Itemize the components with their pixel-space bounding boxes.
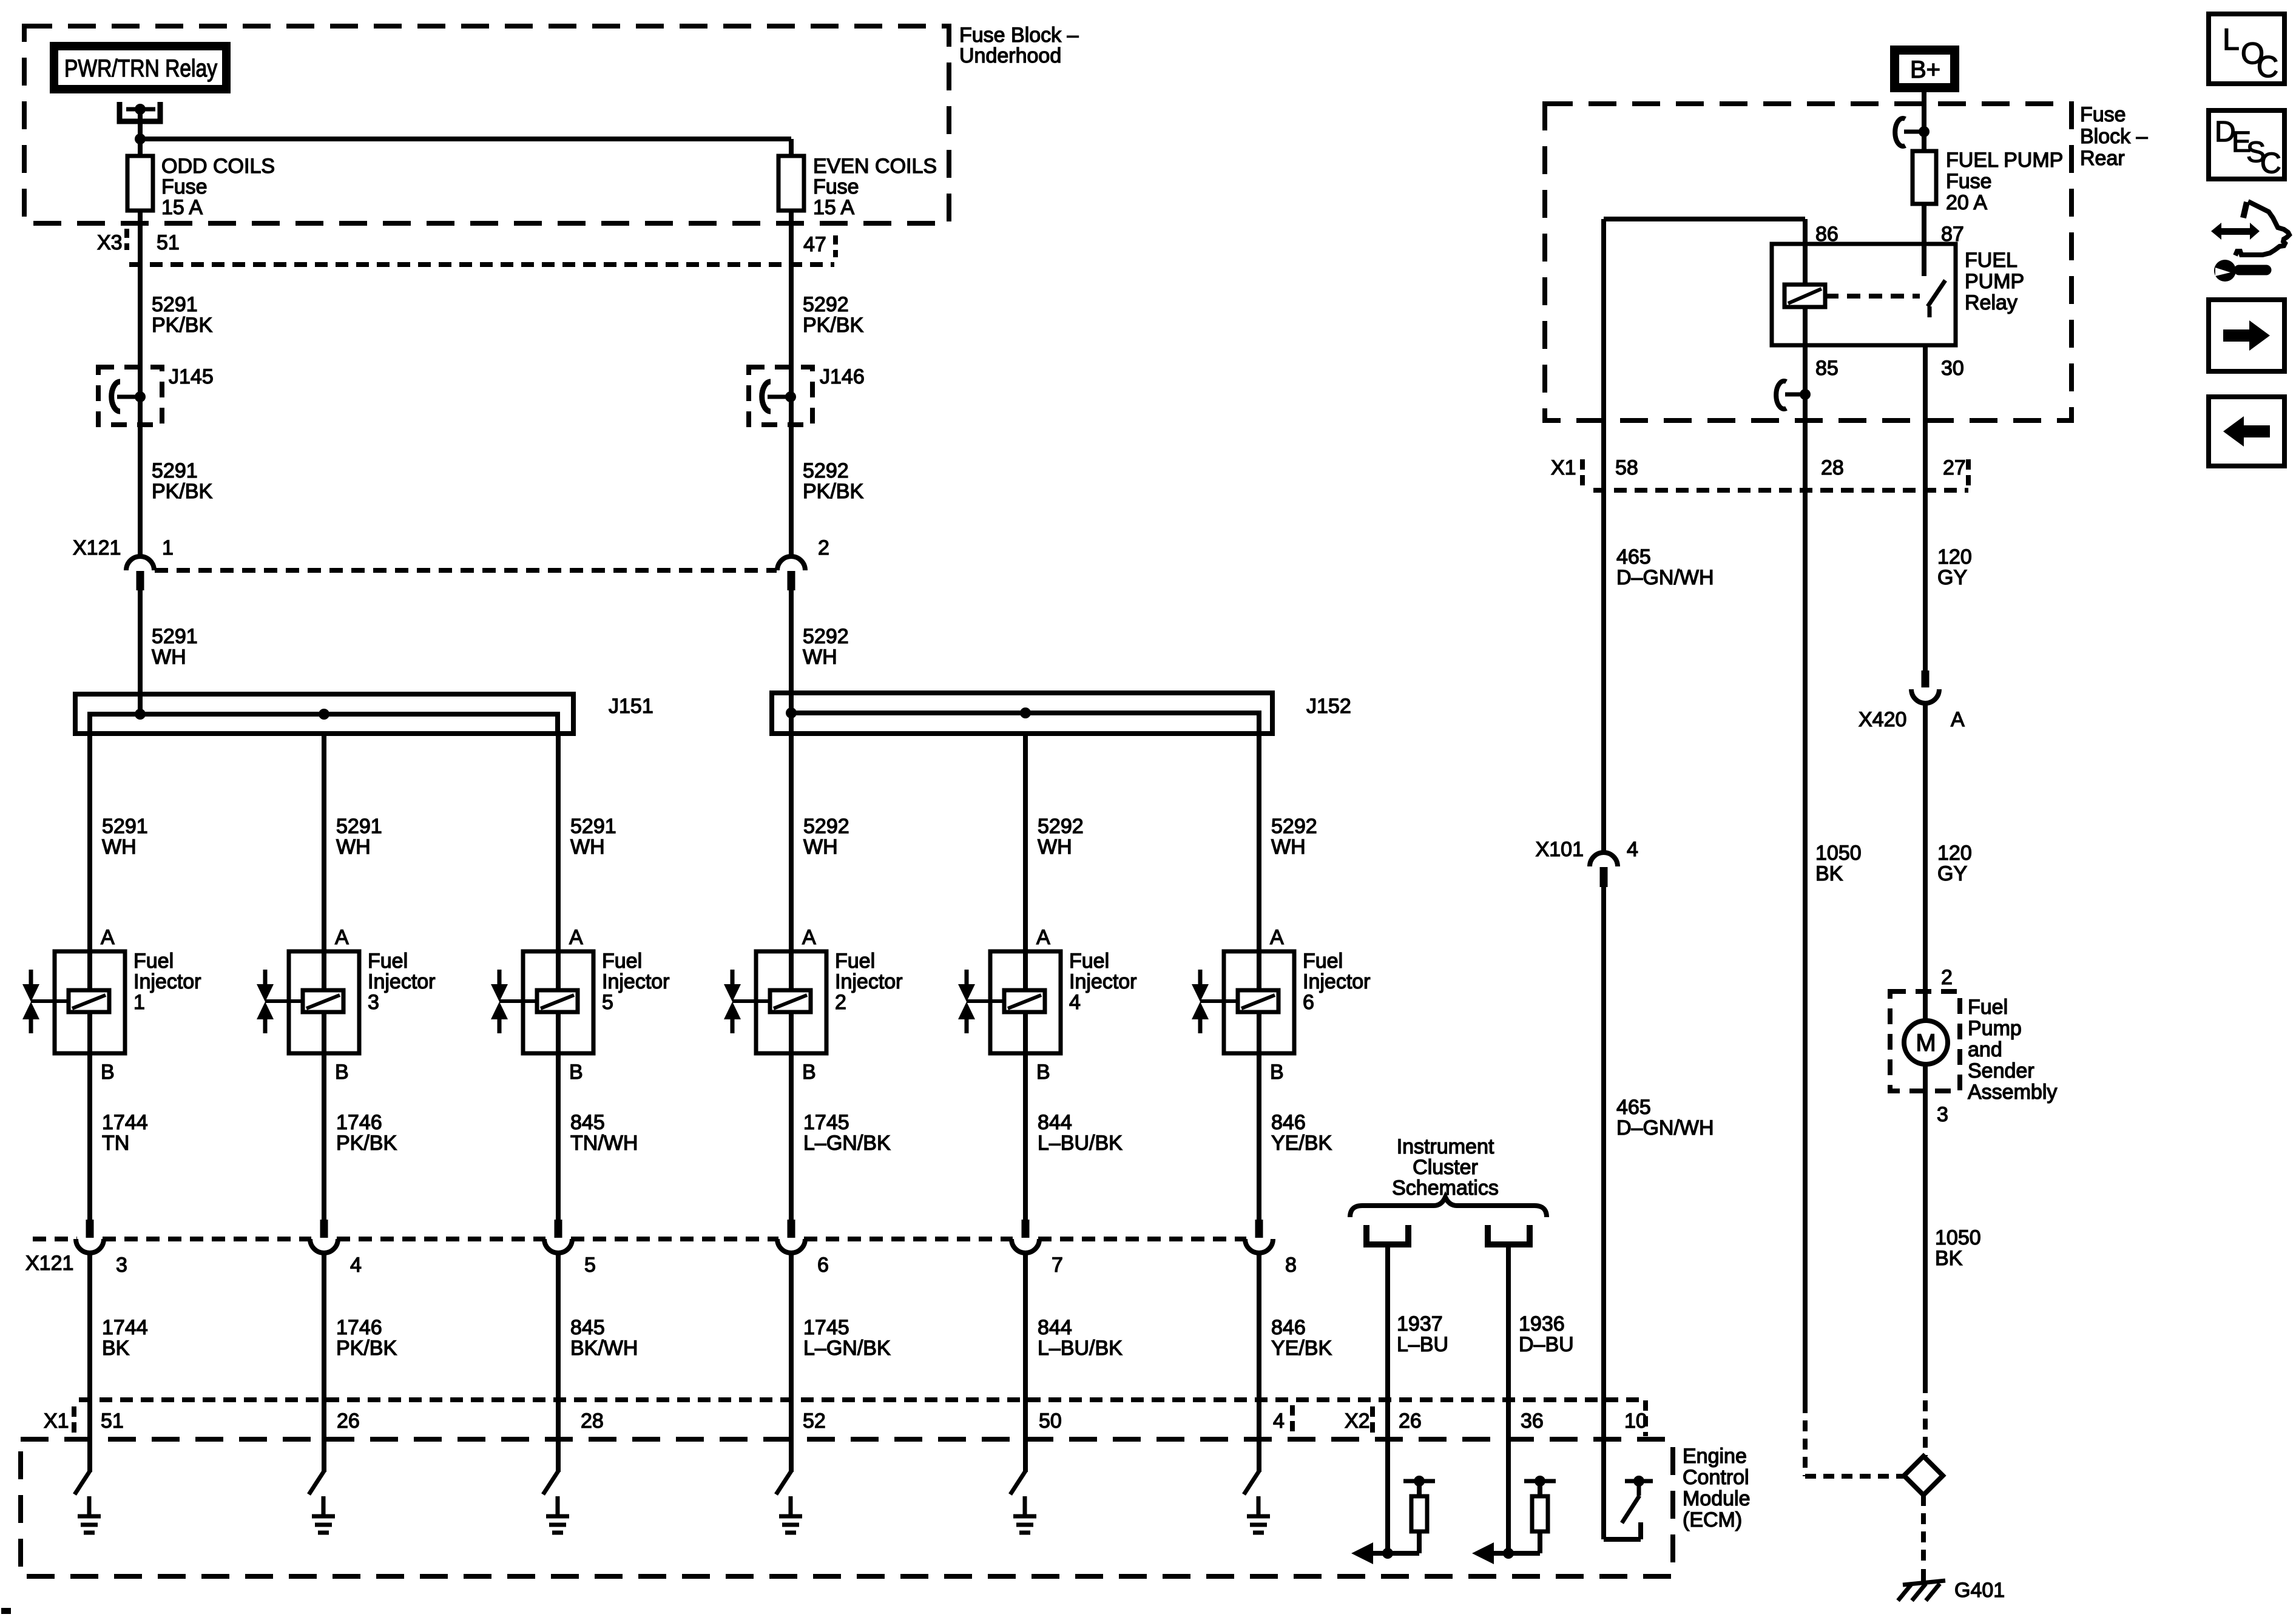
svg-text:Fuel: Fuel <box>835 950 875 973</box>
connector X101 male tick <box>1600 867 1608 887</box>
svg-text:1744: 1744 <box>102 1111 148 1134</box>
svg-text:PWR/TRN Relay: PWR/TRN Relay <box>64 55 217 82</box>
dashed wire pin28 branch down <box>1803 1402 1808 1476</box>
svg-text:845: 845 <box>570 1111 605 1134</box>
wire X121-1 to J151 <box>138 590 143 714</box>
ECM resistor circuit pin 26 <box>1351 1476 1435 1564</box>
svg-text:1745: 1745 <box>803 1316 849 1339</box>
svg-text:L–GN/BK: L–GN/BK <box>803 1132 891 1155</box>
svg-text:Fuse: Fuse <box>2080 103 2126 126</box>
svg-text:Module: Module <box>1683 1487 1751 1510</box>
connector X121 pin 8 male tick <box>1255 1220 1263 1238</box>
svg-text:WH: WH <box>102 836 137 859</box>
connector X1/X2 row line <box>79 1397 1646 1402</box>
connector X420 female <box>1911 689 1939 703</box>
ECM low-side driver switch column 6 <box>1244 1470 1260 1494</box>
svg-text:D–GN/WH: D–GN/WH <box>1616 1116 1714 1139</box>
svg-text:846: 846 <box>1271 1111 1306 1134</box>
wire injector 2 down <box>789 1053 794 1220</box>
svg-text:1746: 1746 <box>336 1111 382 1134</box>
svg-text:Fuel: Fuel <box>1968 996 2008 1019</box>
svg-text:26: 26 <box>1399 1409 1422 1433</box>
connector X121 pin 6 male tick <box>788 1220 795 1238</box>
svg-text:PK/BK: PK/BK <box>803 480 863 503</box>
svg-text:PK/BK: PK/BK <box>152 480 212 503</box>
ECM low-side driver switch column 4 <box>1010 1470 1026 1494</box>
wire J bar down to fuel injector 1 <box>87 734 92 951</box>
svg-text:2: 2 <box>818 536 829 559</box>
svg-text:465: 465 <box>1616 545 1651 569</box>
svg-text:Injector: Injector <box>835 970 903 993</box>
fuse FUEL PUMP 20A <box>1913 151 1936 208</box>
svg-text:1936: 1936 <box>1519 1312 1565 1335</box>
svg-text:20 A: 20 A <box>1946 191 1987 214</box>
wire injector 4 down <box>1023 1053 1028 1220</box>
wire fuse EVEN to J146 to X121 <box>789 211 794 558</box>
connector X3 separator <box>124 229 129 250</box>
wire fuse ODD to J145 to X121 <box>138 211 143 558</box>
svg-text:Injector: Injector <box>133 970 201 993</box>
connector X121 pin1 male tick <box>137 571 144 590</box>
wire X121 to ECM column 6 <box>1257 1252 1261 1472</box>
relay FUEL PUMP <box>1772 244 1956 345</box>
svg-text:5292: 5292 <box>1271 815 1317 838</box>
brace <box>1350 1197 1547 1217</box>
svg-text:J152: J152 <box>1306 695 1351 718</box>
svg-text:X1: X1 <box>1551 456 1576 479</box>
svg-text:Fuse: Fuse <box>161 175 208 198</box>
svg-text:58: 58 <box>1615 456 1638 479</box>
X1 separator <box>72 1406 76 1433</box>
svg-text:Fuel: Fuel <box>368 950 408 973</box>
svg-text:B: B <box>101 1061 115 1084</box>
svg-text:G401: G401 <box>1954 1579 2005 1602</box>
svg-text:BK: BK <box>102 1337 130 1360</box>
svg-text:EVEN COILS: EVEN COILS <box>813 155 937 178</box>
svg-text:5291: 5291 <box>152 625 198 648</box>
svg-text:47: 47 <box>803 233 826 256</box>
svg-text:A: A <box>569 926 583 949</box>
svg-text:5291: 5291 <box>336 815 382 838</box>
svg-text:36: 36 <box>1521 1409 1544 1433</box>
svg-text:X3: X3 <box>97 231 123 254</box>
wire injector 6 down <box>1257 1053 1261 1220</box>
svg-text:465: 465 <box>1616 1096 1651 1119</box>
svg-text:A: A <box>1036 926 1050 949</box>
svg-text:ODD COILS: ODD COILS <box>161 155 275 178</box>
svg-text:5292: 5292 <box>803 625 849 648</box>
ECM internal ground column 3 <box>312 1496 335 1533</box>
X1 rear end separator <box>1966 459 1971 485</box>
svg-text:Injector: Injector <box>602 970 670 993</box>
svg-text:120: 120 <box>1937 545 1972 569</box>
ECM box <box>21 1439 1673 1576</box>
svg-text:FUEL: FUEL <box>1965 249 2017 272</box>
svg-text:5291: 5291 <box>570 815 616 838</box>
fuel pump motor M <box>1904 1021 1948 1064</box>
svg-text:6: 6 <box>1303 991 1314 1014</box>
fuel injector 1 <box>22 951 125 1053</box>
svg-text:844: 844 <box>1038 1111 1072 1134</box>
fuel injector 2 <box>724 951 826 1053</box>
ECM internal ground column 1 <box>78 1496 101 1533</box>
connector X121 pin 5 male tick <box>555 1220 562 1238</box>
svg-text:3: 3 <box>368 991 379 1014</box>
svg-text:Injector: Injector <box>1303 970 1371 993</box>
svg-text:and: and <box>1968 1038 2002 1061</box>
connector X121 pin 4 male tick <box>320 1220 328 1238</box>
svg-text:51: 51 <box>101 1409 124 1433</box>
splice J146 <box>749 367 812 425</box>
fuel injector 6 <box>1192 951 1294 1053</box>
svg-text:J146: J146 <box>820 365 865 388</box>
svg-text:120: 120 <box>1937 842 1972 865</box>
svg-text:5: 5 <box>584 1254 596 1277</box>
connector X121 pin 7 female <box>1011 1239 1039 1253</box>
svg-text:PK/BK: PK/BK <box>803 314 863 337</box>
svg-text:1937: 1937 <box>1397 1312 1443 1335</box>
svg-text:(ECM): (ECM) <box>1683 1508 1742 1531</box>
ECM fuel pump driver switch pin 10 <box>1604 1400 1653 1539</box>
wire J bar down to fuel injector 4 <box>1023 734 1028 951</box>
connector X420 male tick <box>1922 670 1930 687</box>
wire injector 5 down <box>556 1053 561 1220</box>
svg-text:Fuel: Fuel <box>133 950 174 973</box>
wire X121 to ECM column 2 <box>789 1252 794 1472</box>
svg-text:X121: X121 <box>25 1252 73 1275</box>
svg-text:L–GN/BK: L–GN/BK <box>803 1337 891 1360</box>
fuel injector 3 <box>257 951 359 1053</box>
svg-text:1746: 1746 <box>336 1316 382 1339</box>
svg-text:TN/WH: TN/WH <box>570 1132 638 1155</box>
svg-text:26: 26 <box>337 1409 360 1433</box>
svg-text:Sender: Sender <box>1968 1059 2034 1082</box>
svg-text:WH: WH <box>152 646 186 669</box>
wire X101 to ECM pin 10 <box>1601 887 1606 1402</box>
svg-text:3: 3 <box>1937 1103 1948 1126</box>
svg-text:WH: WH <box>336 836 371 859</box>
svg-text:15 A: 15 A <box>161 196 203 219</box>
svg-text:4: 4 <box>1069 991 1081 1014</box>
svg-text:D–BU: D–BU <box>1519 1333 1574 1356</box>
fuse ODD COILS 15A <box>127 152 153 214</box>
connector X3 row line <box>129 262 834 267</box>
svg-text:Instrument: Instrument <box>1397 1135 1494 1158</box>
svg-text:1050: 1050 <box>1935 1226 1981 1249</box>
wire fuse to relay 87 <box>1922 204 1926 244</box>
ECM internal ground column 2 <box>779 1496 802 1533</box>
relay output terminal (cup with dot) <box>120 102 160 121</box>
wire X121 to ECM column 3 <box>322 1252 326 1472</box>
connector X121 pin1 female <box>126 556 154 570</box>
B+ battery feed <box>1890 46 1959 92</box>
svg-text:WH: WH <box>1038 836 1072 859</box>
wire relay 30 down <box>1923 345 1928 670</box>
svg-text:A: A <box>1270 926 1284 949</box>
svg-text:X1: X1 <box>44 1409 69 1433</box>
wire X121 to ECM column 5 <box>556 1252 561 1472</box>
connector X121 pin 5 female <box>544 1239 572 1253</box>
svg-text:Engine: Engine <box>1683 1445 1747 1468</box>
svg-text:GY: GY <box>1937 862 1967 885</box>
wire X121-2 to J152 <box>789 590 794 713</box>
svg-text:PK/BK: PK/BK <box>152 314 212 337</box>
PWR/TRN Relay label box <box>50 42 231 93</box>
svg-text:5292: 5292 <box>1038 815 1084 838</box>
svg-text:Injector: Injector <box>1069 970 1137 993</box>
wire from relay terminal down <box>138 109 143 156</box>
svg-text:X121: X121 <box>73 536 121 559</box>
svg-text:BK: BK <box>1935 1247 1963 1270</box>
svg-text:Cluster: Cluster <box>1413 1156 1478 1179</box>
svg-text:L–BU/BK: L–BU/BK <box>1038 1337 1123 1360</box>
splice pack J151 <box>75 694 573 734</box>
svg-text:A: A <box>101 926 115 949</box>
svg-text:10: 10 <box>1624 1409 1647 1433</box>
page artifact dot <box>1 1608 11 1614</box>
svg-text:Injector: Injector <box>368 970 436 993</box>
svg-text:A: A <box>1951 708 1965 731</box>
svg-text:BK/WH: BK/WH <box>570 1337 638 1360</box>
connector X121 pin 8 female <box>1245 1239 1273 1253</box>
wire fuel pump down <box>1923 1065 1928 1382</box>
svg-text:J145: J145 <box>169 365 214 388</box>
svg-text:Fuse: Fuse <box>1946 170 1992 193</box>
ECM resistor circuit pin 36 <box>1472 1476 1556 1564</box>
connector X121 pin 4 female <box>310 1239 338 1253</box>
svg-text:L–BU: L–BU <box>1397 1333 1448 1356</box>
wire X121 to ECM column 1 <box>87 1252 92 1472</box>
svg-text:4: 4 <box>350 1254 362 1277</box>
svg-text:A: A <box>802 926 816 949</box>
svg-text:X101: X101 <box>1536 838 1584 861</box>
connector X121 pin2 female <box>777 556 805 570</box>
svg-text:B: B <box>335 1061 349 1084</box>
svg-text:X420: X420 <box>1859 708 1906 731</box>
svg-text:5291: 5291 <box>152 293 198 316</box>
svg-text:4: 4 <box>1627 838 1638 861</box>
wire 1937 <box>1385 1244 1390 1553</box>
fuel injector 4 <box>958 951 1061 1053</box>
fuse block rear dashed box <box>1545 104 2071 420</box>
svg-text:6: 6 <box>817 1254 829 1277</box>
svg-text:WH: WH <box>803 836 838 859</box>
svg-text:GY: GY <box>1937 566 1967 589</box>
svg-text:1: 1 <box>162 536 174 559</box>
instrument cluster connector 2 <box>1488 1225 1530 1244</box>
svg-text:WH: WH <box>570 836 605 859</box>
svg-text:C: C <box>2260 147 2281 180</box>
svg-text:845: 845 <box>570 1316 605 1339</box>
ECM low-side driver switch column 1 <box>75 1470 90 1494</box>
svg-text:PUMP: PUMP <box>1965 270 2024 293</box>
X2 end separator <box>1643 1400 1648 1436</box>
fuse block terminal clip 85 <box>1776 381 1786 409</box>
svg-text:Fuel: Fuel <box>1069 950 1109 973</box>
junction node <box>135 133 146 144</box>
ECM internal ground column 5 <box>546 1496 569 1533</box>
svg-text:50: 50 <box>1039 1409 1062 1433</box>
wire J bar down to fuel injector 6 <box>1257 734 1261 951</box>
dashed wire to splice <box>1923 1382 1928 1456</box>
splice pack J152 <box>772 693 1272 734</box>
svg-text:5: 5 <box>602 991 613 1014</box>
icon next arrow box <box>2209 300 2284 371</box>
fuse block terminal clip top <box>1895 118 1905 146</box>
connector X3 end separator <box>833 235 838 257</box>
svg-text:YE/BK: YE/BK <box>1271 1132 1332 1155</box>
svg-text:WH: WH <box>1271 836 1306 859</box>
fuel injector 5 <box>491 951 593 1053</box>
connector X121 row2 dashed line <box>33 1237 77 1241</box>
wire relay 85 down <box>1803 345 1808 1402</box>
svg-text:844: 844 <box>1038 1316 1072 1339</box>
ground G401 <box>1898 1569 1945 1601</box>
svg-text:TN: TN <box>102 1132 129 1155</box>
svg-text:Fuel: Fuel <box>602 950 642 973</box>
svg-text:5291: 5291 <box>102 815 148 838</box>
svg-text:WH: WH <box>803 646 837 669</box>
icon back arrow box <box>2209 397 2284 466</box>
svg-text:1745: 1745 <box>803 1111 849 1134</box>
svg-text:BK: BK <box>1815 862 1843 885</box>
connector X121 row1 dashed line <box>155 568 777 573</box>
connector X121 pin2 male tick <box>788 571 795 590</box>
wire horizontal to even coils fuse <box>140 137 791 141</box>
svg-text:A: A <box>335 926 349 949</box>
svg-text:PK/BK: PK/BK <box>336 1132 397 1155</box>
svg-text:Pump: Pump <box>1968 1017 2022 1040</box>
dashed wire to ground <box>1921 1495 1926 1568</box>
svg-text:28: 28 <box>581 1409 604 1433</box>
svg-text:5291: 5291 <box>152 459 198 482</box>
connector X121 pin 6 female <box>777 1239 805 1253</box>
svg-text:Assembly: Assembly <box>1968 1081 2057 1104</box>
ECM internal ground column 4 <box>1013 1496 1036 1533</box>
X2 separator <box>1370 1406 1375 1433</box>
svg-text:2: 2 <box>1941 966 1953 989</box>
svg-text:FUEL PUMP: FUEL PUMP <box>1946 149 2063 172</box>
wire J bar down to fuel injector 5 <box>556 734 561 951</box>
svg-text:4: 4 <box>1273 1409 1285 1433</box>
svg-text:J151: J151 <box>609 695 653 718</box>
svg-text:52: 52 <box>803 1409 826 1433</box>
svg-text:51: 51 <box>157 231 180 254</box>
svg-text:X2: X2 <box>1345 1409 1370 1433</box>
svg-text:15 A: 15 A <box>813 196 854 219</box>
icon LOC box <box>2209 14 2284 84</box>
X1 rear separator <box>1580 459 1585 485</box>
connector X121 pin 3 female <box>76 1239 104 1253</box>
svg-text:B: B <box>1036 1061 1050 1084</box>
wire J bar down to fuel injector 3 <box>322 734 326 951</box>
svg-text:B: B <box>802 1061 816 1084</box>
wire J bar down to fuel injector 2 <box>789 734 794 951</box>
svg-text:M: M <box>1916 1030 1936 1056</box>
svg-text:2: 2 <box>835 991 846 1014</box>
svg-text:Fuse: Fuse <box>813 175 859 198</box>
svg-text:3: 3 <box>116 1254 127 1277</box>
fuse EVEN COILS 15A <box>778 152 804 214</box>
svg-text:Fuse Block –: Fuse Block – <box>959 24 1079 47</box>
svg-text:1744: 1744 <box>102 1316 148 1339</box>
svg-text:B+: B+ <box>1910 56 1940 83</box>
svg-text:846: 846 <box>1271 1316 1306 1339</box>
ECM low-side driver switch column 2 <box>776 1470 792 1494</box>
ECM internal ground column 6 <box>1247 1496 1270 1533</box>
connector X101 female <box>1590 852 1618 866</box>
instrument cluster connector 1 <box>1366 1225 1408 1244</box>
svg-text:Relay: Relay <box>1965 291 2017 314</box>
svg-text:C: C <box>2257 50 2278 84</box>
svg-text:PK/BK: PK/BK <box>336 1337 397 1360</box>
icon vehicle with wrench <box>2211 201 2289 282</box>
svg-text:7: 7 <box>1052 1254 1063 1277</box>
connector X121 pin 7 male tick <box>1022 1220 1030 1238</box>
svg-text:8: 8 <box>1285 1254 1297 1277</box>
ECM low-side driver switch column 5 <box>543 1470 559 1494</box>
svg-text:85: 85 <box>1815 357 1838 380</box>
svg-text:YE/BK: YE/BK <box>1271 1337 1332 1360</box>
svg-text:5292: 5292 <box>803 293 849 316</box>
svg-text:Fuel: Fuel <box>1303 950 1343 973</box>
svg-text:Control: Control <box>1683 1466 1749 1489</box>
svg-text:B: B <box>1270 1061 1284 1084</box>
svg-text:28: 28 <box>1821 456 1844 479</box>
wire 1936 <box>1506 1244 1511 1553</box>
fuel pump and sender assembly box <box>1890 991 1960 1091</box>
splice J145 <box>98 367 162 425</box>
svg-text:5292: 5292 <box>803 459 849 482</box>
wire B+ down <box>1922 92 1926 151</box>
icon DESC box <box>2209 110 2284 180</box>
ECM low-side driver switch column 3 <box>309 1470 325 1494</box>
svg-text:L: L <box>2223 22 2240 56</box>
connector X121 pin 3 male tick <box>86 1220 94 1238</box>
svg-text:1050: 1050 <box>1815 842 1862 865</box>
svg-text:B: B <box>569 1061 583 1084</box>
svg-text:5292: 5292 <box>803 815 849 838</box>
wire relay 86 up and left <box>1803 219 1808 244</box>
wire down to even fuse <box>789 139 794 156</box>
svg-text:Rear: Rear <box>2080 147 2125 170</box>
wire X121 to ECM column 4 <box>1023 1252 1028 1472</box>
dashed wire pin28 branch right <box>1805 1474 1904 1479</box>
svg-text:Block –: Block – <box>2080 125 2148 148</box>
fuse block underhood dashed box <box>24 26 949 223</box>
X1 end separator <box>1290 1405 1295 1440</box>
wire injector 3 down <box>322 1053 326 1220</box>
svg-text:30: 30 <box>1941 357 1964 380</box>
wire injector 1 down <box>87 1053 92 1220</box>
splice diamond <box>1904 1456 1943 1495</box>
connector X1 rear row line <box>1593 488 1968 493</box>
svg-text:Underhood: Underhood <box>959 44 1061 67</box>
wire X420 to fuel pump <box>1923 703 1928 1021</box>
svg-text:1: 1 <box>133 991 145 1014</box>
svg-text:L–BU/BK: L–BU/BK <box>1038 1132 1123 1155</box>
svg-text:D–GN/WH: D–GN/WH <box>1616 566 1714 589</box>
svg-text:27: 27 <box>1943 456 1966 479</box>
